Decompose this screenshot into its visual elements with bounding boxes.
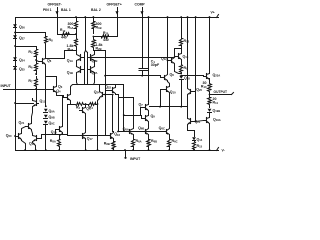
svg-text:Q22: Q22: [105, 85, 111, 90]
transistor Q17: [80, 132, 94, 142]
node offset-null-1 arrow: [55, 11, 58, 14]
transistor Q6B: [138, 126, 148, 136]
diode Q18: [179, 76, 190, 81]
svg-text:Q6C: Q6C: [159, 126, 165, 131]
transistor Q10: [164, 85, 177, 95]
svg-text:R2A: R2A: [67, 48, 73, 53]
svg-text:R1B: R1B: [96, 26, 102, 31]
svg-text:Q15: Q15: [51, 130, 57, 135]
wire Q16 collector col: [113, 95, 114, 132]
resistor R20 440: [97, 35, 115, 39]
wire Q10 emitter: [169, 94, 171, 128]
resistor R6C: [168, 136, 178, 151]
wire Q15 collector up: [62, 96, 64, 125]
svg-text:Q6A: Q6A: [123, 127, 129, 132]
svg-text:R12: R12: [184, 39, 190, 44]
wire Q6A collector up: [133, 98, 135, 128]
wire inverting input pin: [125, 151, 127, 158]
svg-text:BAL 1: BAL 1: [61, 8, 71, 12]
node R15 rail junction: [193, 149, 195, 151]
svg-text:Q2A: Q2A: [91, 71, 97, 76]
transistor Q6A: [123, 127, 134, 136]
transistor Q1A: [67, 51, 85, 85]
node R1A top junction: [75, 16, 77, 18]
transistor Q7: [139, 103, 149, 112]
svg-text:R10: R10: [201, 85, 207, 90]
wire Q3 emitter to Q4 base: [57, 94, 65, 98]
node Q10 base junction: [159, 106, 161, 108]
svg-text:Q6: Q6: [47, 59, 52, 64]
transistor Q11: [33, 99, 46, 108]
wire Q16b collector up: [99, 85, 101, 91]
svg-text:440: 440: [103, 38, 109, 42]
resistor R2B 1.8k: [92, 37, 103, 52]
node Q24 base junction: [104, 94, 106, 96]
wire left rail tap: [16, 46, 37, 48]
node R1A-R2A junction: [75, 33, 77, 35]
diode Q9A: [44, 109, 55, 114]
svg-text:Q19A: Q19A: [213, 118, 221, 123]
transistor Q20b: [188, 88, 203, 96]
wire cross base left: [84, 53, 86, 85]
wire stage2 outA branch: [124, 115, 142, 117]
transistor Q16: [108, 132, 121, 141]
resistor R2A 1.8k: [67, 35, 78, 53]
resistor R9: [180, 65, 189, 74]
resistor R15: [193, 141, 203, 151]
node output node: [209, 94, 211, 96]
node centre rail drop: [97, 149, 99, 151]
transistor Q3: [51, 85, 63, 94]
resistor R6A: [132, 136, 142, 151]
node R5-R6 junction: [35, 59, 37, 61]
wire base split left: [85, 51, 86, 53]
node R4 end junction: [97, 103, 99, 105]
wire Q8 base: [161, 76, 162, 78]
node R8B rail junction: [112, 149, 114, 151]
svg-text:Q11: Q11: [40, 99, 46, 104]
wire Q21b base wire: [194, 18, 196, 122]
transistor Q21b: [188, 117, 201, 126]
svg-text:R7: R7: [28, 79, 33, 84]
svg-text:Q24: Q24: [19, 58, 25, 63]
wire trio base link: [15, 136, 17, 138]
wire noninverting input: [4, 89, 52, 91]
transistor Q13: [176, 52, 189, 61]
transistor Q22: [105, 85, 115, 95]
diode Q9B: [44, 115, 55, 120]
wire Q20 emitter to rail: [22, 141, 26, 151]
svg-text:Q23A: Q23A: [213, 73, 221, 78]
resistor R3: [75, 103, 85, 106]
wire centre base feed: [85, 18, 87, 51]
svg-text:OFFSET-: OFFSET-: [48, 3, 62, 7]
node offset-null-2 arrow: [115, 11, 118, 14]
node Q26-Q27 junction: [14, 32, 16, 34]
wire comp node wire: [106, 75, 161, 77]
wire base split right: [86, 51, 88, 53]
svg-text:Q9A: Q9A: [49, 109, 55, 114]
node trio base junction: [14, 135, 16, 137]
wire Q20b rail drop: [187, 18, 189, 88]
wire stage3 out: [153, 106, 188, 108]
wire Q19 emitter to rail: [33, 143, 36, 151]
transistor Q19: [29, 134, 39, 147]
wire left rail to Q11 base: [16, 103, 34, 105]
svg-text:30pF: 30pF: [151, 63, 160, 67]
svg-text:Q21: Q21: [19, 121, 25, 126]
svg-text:R11: R11: [213, 101, 219, 106]
resistor R19 440: [58, 33, 75, 36]
wire Q18 bottom down: [181, 80, 183, 107]
wire Q21b emitter: [187, 126, 189, 131]
transistor Q23A: [204, 72, 221, 81]
wire R12 rail drop: [181, 18, 183, 37]
wire Q12 collector: [175, 49, 182, 57]
wire cross base right: [87, 53, 89, 85]
node R12 rail junction: [180, 16, 182, 18]
wire Q12 emitter: [175, 65, 182, 74]
resistor R5: [28, 47, 37, 61]
wire Q20 collector up: [22, 127, 26, 132]
node Q20 emitter junction: [24, 149, 26, 151]
diode Q25: [13, 67, 25, 72]
node Q11 base junction: [14, 102, 16, 104]
resistor R1A 300: [67, 18, 77, 34]
wire output rail drop: [209, 18, 211, 74]
node comp drop junction: [148, 16, 150, 18]
node Q17 emitter junction: [85, 149, 87, 151]
node left-tap junction: [14, 45, 16, 47]
transistor Q15: [51, 125, 63, 135]
svg-text:R1A: R1A: [67, 26, 73, 31]
wire Q6 emitter down: [45, 66, 47, 107]
svg-text:Q9: Q9: [151, 114, 156, 119]
diode Q26: [13, 24, 25, 30]
svg-text:Q5: Q5: [86, 107, 91, 112]
transistor Q5: [80, 106, 92, 115]
resistor R6: [28, 61, 37, 75]
wire Q19 base right: [39, 135, 68, 139]
resistor R8: [45, 33, 54, 48]
svg-text:Q6B: Q6B: [138, 126, 144, 131]
wire Q4 collector up: [71, 85, 78, 93]
wire Q15 base link: [56, 130, 57, 135]
node Q8 rail junction: [167, 16, 169, 18]
transistor Q21: [19, 121, 32, 131]
transistor Q8: [162, 73, 175, 82]
resistor R6B: [147, 136, 158, 151]
svg-text:Q8: Q8: [170, 73, 175, 78]
node R6C rail junction: [168, 149, 170, 151]
wire Q9 emitter: [148, 123, 150, 128]
svg-text:OUTPUT: OUTPUT: [214, 90, 228, 94]
transistor Q24: [94, 90, 106, 99]
svg-text:Q2B: Q2B: [91, 59, 97, 64]
wire Q22 base stub: [106, 90, 110, 92]
resistor R7: [28, 77, 37, 90]
svg-text:Q20: Q20: [6, 134, 12, 139]
svg-text:R6A: R6A: [136, 139, 142, 144]
node Q18 out junction: [180, 106, 182, 108]
wire Q15 emitter: [60, 134, 63, 136]
node pair base junction: [112, 94, 114, 96]
resistor R8B: [104, 141, 116, 151]
wire quad emitter bar: [78, 84, 124, 86]
wire Q7 out wire: [150, 106, 153, 108]
wire diode stack to rail: [45, 125, 47, 151]
wire Q22 collector: [115, 85, 117, 86]
wire Q20b emitter: [187, 96, 189, 117]
wire output pin tick: [232, 93, 234, 95]
resistor R8A: [50, 136, 61, 151]
wire offset-1 jog: [58, 34, 77, 36]
resistor R12: [180, 37, 190, 49]
node inverting rail junction: [124, 149, 126, 151]
diode Q14: [192, 137, 203, 142]
wire Q11 emitter down: [32, 108, 33, 122]
svg-text:R6: R6: [28, 65, 33, 70]
wire comp rail drop: [148, 18, 150, 103]
node mirror bus junction: [117, 131, 119, 133]
wire Q7 emitter: [148, 112, 150, 114]
svg-text:OFFSET+: OFFSET+: [107, 3, 122, 7]
resistor R1B 300: [92, 18, 102, 34]
node comp arrow: [140, 11, 143, 14]
node centre rail junction: [84, 16, 86, 18]
svg-text:R8: R8: [49, 38, 54, 43]
node Q18 top node: [180, 75, 182, 77]
svg-text:INPUT: INPUT: [130, 157, 141, 161]
svg-text:V+: V+: [211, 11, 215, 15]
wire offset-2 jog: [94, 36, 118, 38]
node Q19 emitter junction: [35, 149, 37, 151]
wire Q16b emitter to R4: [98, 99, 100, 105]
node R3-R4 tap: [85, 103, 87, 105]
wire pair to Q6A collector: [119, 97, 134, 99]
svg-text:PIN 1: PIN 1: [43, 8, 52, 12]
wire Q5 emitter down: [85, 115, 87, 132]
wire comp pin lower: [142, 71, 144, 76]
node R7-input junction: [35, 88, 37, 90]
wire V+ pin tick: [217, 15, 219, 18]
svg-text:Q1B: Q1B: [67, 71, 73, 76]
wire Q13 emitter: [181, 61, 183, 65]
svg-text:INPUT: INPUT: [1, 84, 12, 88]
svg-text:Q4: Q4: [56, 89, 61, 94]
node inverting input dot: [124, 157, 126, 159]
wire Q24 base wire: [106, 94, 113, 96]
node R1B-R2B junction: [93, 36, 95, 38]
wire Q6C collector join: [169, 127, 171, 129]
wire Q8 collector up: [167, 18, 169, 74]
transistor Q19A: [204, 116, 221, 125]
node output rail junction: [209, 16, 211, 18]
node Q20b rail junction: [187, 16, 189, 18]
resistor R11 20: [208, 95, 219, 108]
svg-text:R5: R5: [28, 50, 33, 55]
wire Q9 base wire: [142, 116, 143, 119]
wire V- pin tick: [217, 148, 219, 151]
wire Q10 base: [161, 90, 164, 107]
wire offset-null-1 pin: [57, 8, 59, 35]
wire Q4 emitter to R3: [71, 102, 75, 105]
wire left bias rail: [15, 18, 17, 151]
wire Q22 base feed: [94, 51, 106, 136]
svg-text:Q14: Q14: [197, 138, 203, 143]
transistor Q12: [161, 57, 174, 65]
svg-text:Q26: Q26: [19, 25, 25, 30]
wire Q6 node to quad load: [46, 51, 77, 59]
svg-text:V-: V-: [222, 148, 225, 152]
wire bias tap to R8: [16, 32, 46, 34]
node R6A rail junction: [132, 149, 134, 151]
svg-text:R8B: R8B: [104, 142, 110, 147]
svg-text:440: 440: [61, 36, 67, 40]
wire mirror base bus: [119, 131, 164, 133]
resistor R4: [87, 103, 98, 106]
wire Q19A emitter: [209, 125, 211, 151]
node outA branch junction: [123, 114, 125, 116]
node R1B top junction: [93, 16, 95, 18]
transistor Q20: [6, 132, 22, 141]
wire Q12 base link: [168, 60, 169, 62]
svg-text:Q7: Q7: [139, 103, 144, 108]
diode Q9C: [44, 121, 55, 126]
wire Q22 emitter: [115, 94, 117, 96]
node comp junction: [141, 75, 143, 77]
svg-text:R3: R3: [76, 106, 80, 111]
svg-text:Q19B: Q19B: [213, 109, 221, 114]
wire stage2 out B: [116, 95, 119, 132]
wire bottom V- rail: [16, 150, 219, 152]
wire R4 end to rail: [97, 105, 99, 151]
svg-text:R8A: R8A: [50, 139, 56, 144]
wire R7 to Q11 collector: [36, 90, 38, 100]
wire Q17 emitter rail: [85, 141, 87, 151]
wire quad base to Q13 base: [92, 57, 176, 58]
resistor R10 30: [201, 81, 212, 95]
transistor Q6: [41, 57, 52, 66]
wire Q21 emitter to Q19: [32, 131, 33, 134]
transistor Q9: [143, 114, 156, 123]
diode Q24: [13, 57, 25, 63]
node output col rail junction: [209, 149, 211, 151]
wire Q17 base wire: [68, 105, 108, 136]
wire Q7 base wire: [141, 108, 143, 116]
svg-text:BAL 2: BAL 2: [91, 8, 101, 12]
transistor Q4: [56, 89, 70, 102]
node stack rail junction: [45, 149, 47, 151]
svg-text:Q27: Q27: [19, 36, 25, 41]
node Q21b base rail junction: [195, 16, 197, 18]
wire to diode Q14: [188, 131, 195, 137]
wire Q5 tail: [85, 105, 87, 106]
svg-text:Q9B: Q9B: [49, 115, 55, 120]
wire top V+ rail: [16, 17, 219, 19]
wire R12 to Q13: [181, 49, 183, 52]
wire Q8 emitter down: [168, 82, 170, 85]
svg-text:R6B: R6B: [151, 139, 157, 144]
diode Q27: [13, 35, 25, 41]
svg-text:Q17: Q17: [87, 137, 93, 142]
node R6-R7 junction: [35, 73, 37, 75]
transistor Q6C: [159, 126, 170, 136]
svg-text:COMP: COMP: [135, 3, 146, 7]
svg-text:Q25: Q25: [19, 67, 25, 72]
wire Q6 collector up: [45, 48, 47, 57]
svg-text:Q12: Q12: [161, 57, 167, 62]
wire stage2 out A: [123, 85, 125, 132]
wire comp pin: [142, 8, 144, 69]
wire Q23A collector join: [209, 72, 211, 74]
svg-text:R15: R15: [197, 144, 203, 149]
transistor Q2B: [88, 51, 98, 85]
node comp pickoff junction: [104, 75, 106, 77]
diode Q19B: [208, 109, 221, 114]
svg-text:Q9C: Q9C: [49, 121, 55, 126]
wire node to output base: [182, 75, 204, 77]
wire offset-null-2 pin: [117, 8, 119, 37]
node R6B rail junction: [148, 149, 150, 151]
wire Q19A collector: [209, 113, 211, 116]
wire output lead: [210, 94, 232, 96]
capacitor C1: [139, 60, 160, 71]
node R8A rail junction: [58, 149, 60, 151]
wire Q21b to Q19A base: [196, 121, 204, 122]
wire Q20b base link: [194, 91, 196, 93]
node Q6 emitter junction: [45, 105, 47, 107]
node Q12 base junction: [167, 60, 169, 62]
wire Q23A emitter join: [209, 79, 211, 81]
svg-text:R6C: R6C: [172, 139, 178, 144]
wire Q6 base feed: [37, 61, 40, 62]
svg-text:R20: R20: [103, 31, 109, 36]
svg-text:Q1A: Q1A: [67, 59, 73, 64]
wire Q3 collector up: [46, 77, 57, 85]
